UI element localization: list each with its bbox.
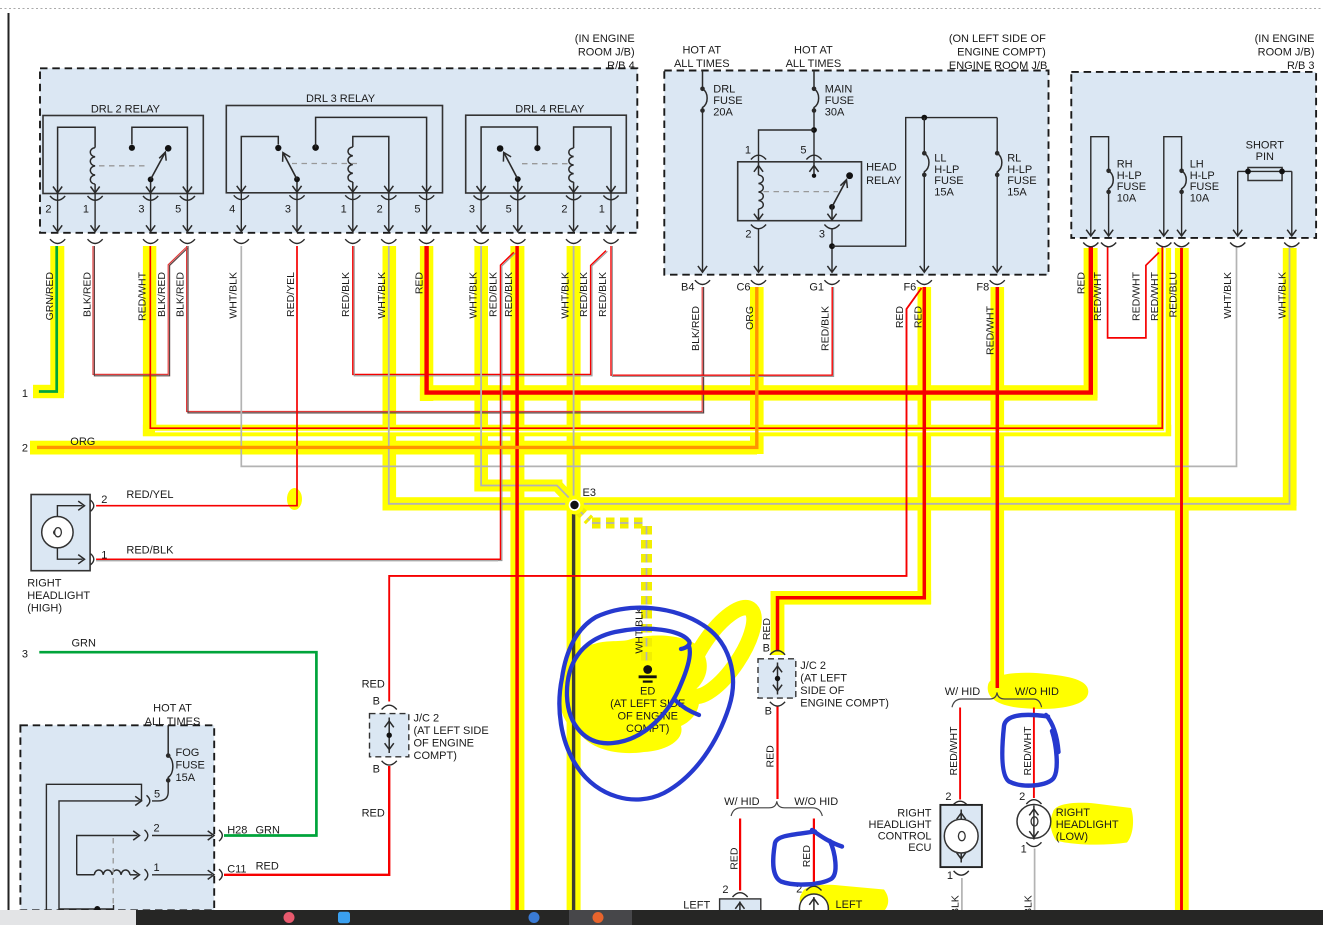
highlight RED/BLU wire bbox=[1175, 248, 1189, 910]
relay HEAD RELAY bbox=[738, 162, 902, 221]
svg-text:BLK/RED: BLK/RED bbox=[156, 272, 168, 317]
wire RED/BLK DRL4 pin5 diagonal to right headlight high pin1 bbox=[96, 252, 514, 559]
svg-text:3: 3 bbox=[285, 204, 291, 216]
svg-text:RED/BLK: RED/BLK bbox=[578, 272, 590, 317]
svg-text:1: 1 bbox=[745, 145, 751, 157]
svg-text:5: 5 bbox=[175, 204, 181, 216]
wire RED F6 thin via J/C2 left to C11 bbox=[389, 288, 921, 702]
svg-text:RIGHT: RIGHT bbox=[897, 808, 932, 820]
brace W/HID-W/O HID split at J/C2 right bbox=[731, 801, 822, 816]
fuse LH H-LP FUSE 10A bbox=[1164, 137, 1182, 237]
svg-text:R/B 3: R/B 3 bbox=[1287, 60, 1315, 72]
highlight blob RIGHT HEADLIGHT LOW text bbox=[1051, 803, 1133, 845]
highlight E3 horizontal WHT/BLK rail bbox=[383, 497, 1297, 510]
svg-text:(HIGH): (HIGH) bbox=[27, 603, 62, 615]
gray shadow on RED/BLK horizontal bbox=[96, 560, 498, 562]
taskbar icon orange bbox=[593, 912, 604, 923]
svg-text:SHORT: SHORT bbox=[1246, 140, 1285, 152]
svg-text:RED: RED bbox=[913, 306, 925, 329]
wire J/B junction to head relay pin1 bbox=[759, 130, 815, 162]
relay DRL4 bbox=[466, 104, 627, 194]
svg-text:RIGHT: RIGHT bbox=[1056, 807, 1091, 819]
highlight blob LEFT bulb bbox=[800, 885, 888, 911]
connector head relay pin2 bbox=[751, 225, 766, 229]
svg-text:FUSE: FUSE bbox=[934, 175, 963, 187]
svg-text:J/C 2: J/C 2 bbox=[414, 713, 440, 725]
node E3 bbox=[565, 496, 584, 515]
wire RED W/O HID branch to LEFT bulb bbox=[813, 819, 815, 885]
svg-text:2: 2 bbox=[101, 494, 107, 506]
svg-text:1: 1 bbox=[1021, 844, 1027, 856]
head relay pin5 contact bbox=[809, 166, 818, 172]
connectors at J/B bottom edge bbox=[695, 280, 710, 284]
R/B 4 dashed border bbox=[40, 68, 637, 233]
fuse RL H-LP FUSE 15A bbox=[996, 118, 998, 154]
svg-text:3: 3 bbox=[22, 649, 28, 661]
svg-text:2: 2 bbox=[722, 884, 728, 896]
svg-text:5: 5 bbox=[506, 204, 512, 216]
wire WHT/BLK DRL3 pin4 to R/B3 conn5 bbox=[241, 246, 1236, 466]
highlight WHT/BLK wire DRL3 pin2 bbox=[383, 246, 397, 510]
relay DRL3 pin leads bbox=[234, 193, 249, 244]
highlight WHT/BLK wire DRL4 pin3 bbox=[474, 246, 488, 491]
svg-text:E3: E3 bbox=[583, 487, 596, 499]
svg-text:WHT/BLK: WHT/BLK bbox=[228, 272, 240, 319]
page left border bbox=[8, 13, 10, 910]
svg-text:RELAY: RELAY bbox=[866, 175, 902, 187]
fog relay box fill bbox=[20, 725, 214, 910]
svg-text:GRN: GRN bbox=[72, 638, 97, 650]
wire BLK below LOW bulb bbox=[1034, 849, 1036, 911]
relay DRL4 coil bbox=[574, 127, 611, 193]
svg-text:FUSE: FUSE bbox=[1190, 181, 1219, 193]
svg-text:RL: RL bbox=[1007, 153, 1021, 165]
svg-text:MAIN: MAIN bbox=[825, 84, 853, 96]
svg-text:BLK/RED: BLK/RED bbox=[175, 272, 187, 317]
brace W/HID-W/O HID split at F8 bbox=[952, 693, 1042, 708]
svg-text:15A: 15A bbox=[176, 772, 196, 784]
highlight WHT/BLK wire DRL4 pin2 + black wire below E3 bbox=[567, 246, 581, 910]
taskbar bbox=[0, 910, 1323, 925]
svg-text:RED/WHT: RED/WHT bbox=[1131, 271, 1143, 321]
svg-text:H-LP: H-LP bbox=[1117, 170, 1142, 182]
svg-text:C6: C6 bbox=[736, 282, 750, 294]
relay DRL4 switch bbox=[481, 127, 537, 193]
connector H28 bbox=[152, 835, 212, 837]
R/B 4 junction block fill bbox=[40, 68, 637, 233]
svg-text:GRN/RED: GRN/RED bbox=[44, 272, 56, 321]
ground ED bbox=[643, 665, 652, 674]
svg-text:(LOW): (LOW) bbox=[1056, 831, 1088, 843]
engine room J/B dashed border bbox=[664, 71, 1048, 275]
svg-text:RED: RED bbox=[256, 861, 279, 873]
svg-text:RED/BLK: RED/BLK bbox=[597, 272, 609, 317]
svg-text:BLK/RED: BLK/RED bbox=[690, 306, 702, 351]
svg-text:R/B 4: R/B 4 bbox=[607, 60, 635, 72]
node G1/F-rail junction bbox=[831, 228, 833, 273]
svg-text:3: 3 bbox=[138, 204, 144, 216]
taskbar icon pink bbox=[284, 912, 295, 923]
fog fuse lead into pin 5 bbox=[152, 780, 168, 801]
svg-text:F6: F6 bbox=[903, 282, 916, 294]
svg-text:WHT/BLK: WHT/BLK bbox=[560, 272, 572, 319]
wire RED/BLK thick DRL4 pin5 straight to page bottom bbox=[515, 246, 519, 911]
svg-text:RED/WHT: RED/WHT bbox=[1022, 726, 1034, 776]
svg-text:RED/BLK: RED/BLK bbox=[820, 306, 832, 351]
fog relay coil bbox=[77, 874, 95, 876]
R/B 3 dashed border bbox=[1071, 72, 1316, 238]
svg-text:RED/BLK: RED/BLK bbox=[503, 272, 515, 317]
wire RED below J/C2 right bbox=[776, 706, 778, 799]
svg-text:RED: RED bbox=[414, 272, 426, 295]
highlight RED/WHT wire DRL2 pin3 bbox=[143, 246, 156, 436]
highlight ORG wire bbox=[750, 287, 764, 454]
svg-text:SIDE OF: SIDE OF bbox=[800, 685, 844, 697]
highlight F6 thick RED wire bbox=[918, 287, 932, 604]
node MAIN fuse junction bbox=[813, 111, 815, 162]
svg-text:HEADLIGHT: HEADLIGHT bbox=[869, 819, 932, 831]
fuse RH H-LP FUSE 10A bbox=[1091, 137, 1109, 237]
taskbar icon blue 2 bbox=[529, 912, 540, 923]
highlight R/B3 WHT/BLK conn6 wire bbox=[1283, 248, 1297, 506]
svg-text:1: 1 bbox=[154, 862, 160, 874]
svg-text:1: 1 bbox=[341, 204, 347, 216]
svg-text:B: B bbox=[373, 764, 380, 776]
svg-text:FUSE: FUSE bbox=[825, 95, 854, 107]
svg-text:B: B bbox=[763, 643, 770, 655]
relay DRL3 switch bbox=[241, 137, 278, 193]
svg-text:RED: RED bbox=[761, 618, 773, 641]
svg-text:DRL 4 RELAY: DRL 4 RELAY bbox=[515, 104, 585, 116]
svg-text:LL: LL bbox=[934, 153, 946, 165]
svg-text:H28: H28 bbox=[227, 825, 247, 837]
svg-text:HEADLIGHT: HEADLIGHT bbox=[1056, 819, 1119, 831]
svg-text:OF ENGINE: OF ENGINE bbox=[617, 711, 678, 723]
svg-text:DRL: DRL bbox=[713, 84, 735, 96]
svg-text:30A: 30A bbox=[825, 107, 845, 119]
svg-text:15A: 15A bbox=[1007, 186, 1027, 198]
svg-text:HOT AT: HOT AT bbox=[794, 45, 833, 57]
blue scribble around RED W/O HID label bbox=[773, 832, 835, 885]
wire BLK below ECU bbox=[961, 878, 963, 910]
svg-text:ORG: ORG bbox=[744, 306, 756, 330]
wire RED/BLU R/B3 conn4 to page bottom bbox=[1180, 248, 1183, 911]
svg-text:WHT/BLK: WHT/BLK bbox=[468, 272, 480, 319]
svg-text:2: 2 bbox=[45, 204, 51, 216]
svg-text:RED/BLK: RED/BLK bbox=[340, 272, 352, 317]
svg-text:H-LP: H-LP bbox=[934, 164, 959, 176]
svg-text:1: 1 bbox=[83, 204, 89, 216]
svg-text:ORG: ORG bbox=[70, 436, 95, 448]
svg-text:20A: 20A bbox=[713, 107, 733, 119]
svg-text:FOG: FOG bbox=[176, 747, 200, 759]
svg-text:2: 2 bbox=[561, 204, 567, 216]
svg-text:RH: RH bbox=[1117, 159, 1133, 171]
svg-text:FUSE: FUSE bbox=[713, 95, 742, 107]
highlight R/B3 RED/WHT conn3 wire bbox=[1157, 248, 1171, 430]
svg-text:2: 2 bbox=[22, 443, 28, 455]
svg-text:1: 1 bbox=[947, 870, 953, 882]
fuse DRL FUSE 20A bbox=[702, 71, 704, 89]
svg-text:RED: RED bbox=[362, 679, 385, 691]
svg-text:10A: 10A bbox=[1190, 192, 1210, 204]
highlight R/B3 RED wire bbox=[1084, 248, 1098, 398]
svg-text:FUSE: FUSE bbox=[1007, 175, 1036, 187]
svg-text:LH: LH bbox=[1190, 159, 1204, 171]
junction J/C 2 left bbox=[370, 705, 409, 765]
svg-text:RED: RED bbox=[801, 845, 813, 868]
R/B 3 fill bbox=[1071, 72, 1316, 238]
wire RED/YEL DRL3 pin3 to right headlight high pin2 bbox=[96, 246, 297, 506]
page top dotted border bbox=[0, 8, 1323, 10]
svg-text:(IN ENGINE: (IN ENGINE bbox=[1255, 33, 1315, 45]
svg-text:BLK/RED: BLK/RED bbox=[82, 272, 94, 317]
component RIGHT HEADLIGHT CONTROL ECU bbox=[940, 805, 982, 867]
wire RED thick DRL3 pin5 to R/B3 conn1 bbox=[427, 246, 1091, 393]
svg-text:HOT AT: HOT AT bbox=[682, 45, 721, 57]
svg-text:RIGHT: RIGHT bbox=[27, 578, 62, 590]
svg-text:LEFT: LEFT bbox=[683, 899, 710, 911]
lead B4 inside J/B bbox=[702, 111, 704, 273]
highlight RED/BLK long wire DRL4 pin5 bbox=[510, 246, 524, 910]
connector head relay pin5 bbox=[806, 155, 821, 159]
svg-text:LEFT: LEFT bbox=[836, 899, 863, 911]
wire RED/BLK DRL3 pin1 to DRL4 pin1 diagonal bbox=[353, 246, 606, 374]
fog relay switch remnant bbox=[59, 908, 114, 910]
wire WHT/BLK DRL4 pin3 to E3 bbox=[481, 246, 573, 503]
svg-text:OF ENGINE: OF ENGINE bbox=[414, 738, 475, 750]
svg-text:ROOM J/B): ROOM J/B) bbox=[578, 47, 635, 59]
junction J/C 2 right bbox=[758, 651, 796, 707]
blue scribble hook inside bbox=[675, 700, 699, 715]
svg-text:HEADLIGHT: HEADLIGHT bbox=[27, 590, 90, 602]
svg-text:DRL 3 RELAY: DRL 3 RELAY bbox=[306, 93, 376, 105]
svg-text:HOT AT: HOT AT bbox=[153, 703, 192, 715]
wire BLK ground lead below E3 bbox=[572, 508, 575, 911]
svg-text:(ON LEFT SIDE OF: (ON LEFT SIDE OF bbox=[949, 33, 1046, 45]
svg-text:WHT/BLK: WHT/BLK bbox=[376, 272, 388, 319]
svg-text:RED/WHT: RED/WHT bbox=[985, 305, 997, 355]
component LEFT bulb bbox=[799, 894, 828, 923]
svg-text:3: 3 bbox=[469, 204, 475, 216]
connector head relay pin3 bbox=[824, 225, 839, 229]
highlight RED/WHT horizontal rail bbox=[143, 425, 1171, 437]
svg-text:RED/WHT: RED/WHT bbox=[948, 726, 960, 776]
wire GRN H28 to left margin stub 3 bbox=[39, 652, 316, 835]
svg-text:DRL 2 RELAY: DRL 2 RELAY bbox=[91, 104, 161, 116]
svg-text:W/ HID: W/ HID bbox=[945, 686, 980, 698]
connectors at R/B3 bottom edge bbox=[1083, 243, 1098, 247]
relay DRL2 pin leads bbox=[50, 194, 65, 244]
wire head relay pin3 to H-LP fuses bbox=[832, 118, 997, 247]
svg-text:(IN ENGINE: (IN ENGINE bbox=[575, 33, 635, 45]
wire RED/BLK DRL4 pin1 straight to G1 bbox=[611, 246, 832, 375]
svg-text:2: 2 bbox=[945, 791, 951, 803]
svg-text:RED: RED bbox=[729, 847, 741, 870]
head relay coil bbox=[754, 166, 763, 172]
highlight blob around ED ground bbox=[676, 598, 766, 705]
svg-text:HEAD: HEAD bbox=[866, 162, 897, 174]
wire WHT/BLK dashed ED ground lead (yellow dashes) bbox=[578, 509, 590, 521]
svg-text:RED/BLK: RED/BLK bbox=[126, 545, 174, 557]
svg-text:WHT/BLK: WHT/BLK bbox=[1276, 272, 1288, 319]
highlight patch at RED/YEL corner bbox=[287, 488, 302, 510]
blue scribble around ED ground (outer loop) bbox=[559, 608, 733, 800]
lead C6 inside J/B bbox=[758, 228, 760, 273]
svg-text:J/C 2: J/C 2 bbox=[800, 660, 826, 672]
svg-text:B: B bbox=[373, 696, 380, 708]
relay DRL3 coil bbox=[353, 137, 389, 193]
svg-text:H-LP: H-LP bbox=[1007, 164, 1032, 176]
svg-text:ALL TIMES: ALL TIMES bbox=[145, 716, 201, 728]
relay DRL2 bbox=[43, 104, 203, 194]
engine room J/B fill bbox=[664, 71, 1048, 275]
fog relay dashed border bbox=[20, 725, 214, 910]
svg-text:RED: RED bbox=[894, 306, 906, 329]
svg-text:3: 3 bbox=[819, 229, 825, 241]
fog relay pin2 line bbox=[77, 836, 138, 875]
svg-text:ALL TIMES: ALL TIMES bbox=[674, 58, 730, 70]
svg-text:RED: RED bbox=[765, 745, 777, 768]
svg-text:5: 5 bbox=[800, 145, 806, 157]
svg-text:B4: B4 bbox=[681, 282, 694, 294]
wire RED/WHT W/ HID branch to ECU pin2 bbox=[959, 708, 961, 800]
svg-text:FUSE: FUSE bbox=[176, 760, 205, 772]
head relay switch bbox=[846, 172, 853, 179]
svg-text:2: 2 bbox=[377, 204, 383, 216]
svg-text:ALL TIMES: ALL TIMES bbox=[786, 58, 842, 70]
svg-text:RED/WHT: RED/WHT bbox=[1092, 271, 1104, 321]
svg-text:ENGINE COMPT): ENGINE COMPT) bbox=[957, 47, 1046, 59]
svg-text:RED/YEL: RED/YEL bbox=[285, 272, 297, 317]
svg-text:(AT LEFT SIDE: (AT LEFT SIDE bbox=[414, 725, 489, 737]
svg-text:15A: 15A bbox=[934, 186, 954, 198]
wire RED/WHT W/O HID branch to LOW bulb pin2 bbox=[1033, 708, 1035, 799]
taskbar icon blue 1 bbox=[338, 912, 350, 923]
svg-text:W/O HID: W/O HID bbox=[1015, 686, 1059, 698]
fuse LL H-LP FUSE 15A bbox=[923, 118, 925, 154]
connector LOW bulb pin1 bbox=[1026, 842, 1041, 846]
svg-text:B: B bbox=[765, 706, 772, 718]
svg-text:1: 1 bbox=[101, 550, 107, 562]
wire GRN/RED DRL2 pin2 bbox=[39, 246, 57, 392]
svg-text:FUSE: FUSE bbox=[1117, 181, 1146, 193]
connector C11 bbox=[152, 874, 212, 876]
highlight thick RED rail bbox=[420, 385, 1098, 400]
svg-text:RED/YEL: RED/YEL bbox=[126, 489, 173, 501]
wire RED/WHT DRL2 pin3 to R/B3 (white component) bbox=[155, 246, 1165, 432]
component RIGHT HEADLIGHT (HIGH) bbox=[31, 495, 94, 571]
connector ECU pin1 bbox=[954, 871, 969, 875]
svg-text:1: 1 bbox=[22, 388, 28, 400]
svg-text:ROOM J/B): ROOM J/B) bbox=[1258, 47, 1315, 59]
svg-text:COMPT): COMPT) bbox=[414, 750, 457, 762]
fuse MAIN FUSE 30A bbox=[813, 71, 815, 89]
svg-text:CONTROL: CONTROL bbox=[878, 831, 932, 843]
svg-text:RED: RED bbox=[1075, 272, 1087, 295]
svg-text:H-LP: H-LP bbox=[1190, 170, 1215, 182]
highlight RED wire DRL3 pin5 bbox=[420, 246, 433, 401]
svg-text:2: 2 bbox=[745, 229, 751, 241]
highlight WHT/BLK short rail DRL4 pin3 bbox=[474, 480, 562, 492]
svg-text:(AT LEFT: (AT LEFT bbox=[800, 673, 847, 685]
blue scribble around RED/WHT W/O HID label bbox=[1002, 715, 1056, 786]
taskbar active block bbox=[569, 910, 632, 925]
wire WHT/BLK DRL4 pin2 down to E3 bbox=[573, 246, 575, 502]
svg-text:PIN: PIN bbox=[1256, 151, 1274, 163]
svg-text:5: 5 bbox=[154, 789, 160, 801]
wire BLK/RED DRL2 pin1 to pin5 diagonal bbox=[93, 246, 186, 374]
wire ORG C6 to left margin bbox=[37, 287, 757, 447]
connector head relay pin1 bbox=[751, 155, 766, 159]
connector fog pin1 bbox=[145, 869, 148, 880]
wire BLK/RED DRL2 pin5 to B4 bbox=[187, 246, 703, 412]
svg-text:C11: C11 bbox=[227, 864, 246, 876]
component LEFT connector box bbox=[720, 899, 761, 912]
wire RED/WHT DRL2 pin3 to R/B3 (red component) bbox=[150, 246, 1162, 428]
highlight F8 RED/WHT wire bbox=[991, 287, 1005, 683]
relay DRL2 switch bbox=[132, 127, 188, 193]
svg-text:ENGINE ROOM J/B: ENGINE ROOM J/B bbox=[949, 60, 1047, 72]
highlight GRN/RED wire bbox=[50, 246, 64, 393]
wire RED/WHT F8 bbox=[996, 287, 1000, 688]
svg-text:4: 4 bbox=[229, 204, 235, 216]
wire RED W/ HID branch to LEFT connector box bbox=[739, 819, 741, 891]
svg-text:WHT/BLK: WHT/BLK bbox=[1222, 272, 1234, 319]
svg-text:G1: G1 bbox=[809, 282, 824, 294]
svg-text:ECU: ECU bbox=[908, 842, 931, 854]
svg-text:W/ HID: W/ HID bbox=[724, 796, 759, 808]
fuse FOG FUSE 15A bbox=[167, 725, 169, 755]
component RIGHT HEADLIGHT LOW bulb bbox=[1017, 805, 1051, 840]
connector fog pin5 bbox=[147, 795, 150, 806]
svg-text:5: 5 bbox=[414, 204, 420, 216]
blue scribble around ED ground (inner loop) bbox=[567, 629, 690, 744]
svg-text:RED/WHT: RED/WHT bbox=[136, 271, 148, 321]
wire RED/WHT R/B3 conn2 loop to conn3 bbox=[1108, 246, 1159, 338]
svg-text:RED: RED bbox=[362, 808, 385, 820]
svg-text:ED: ED bbox=[640, 686, 655, 698]
svg-text:ENGINE COMPT): ENGINE COMPT) bbox=[800, 698, 889, 710]
svg-text:2: 2 bbox=[154, 823, 160, 835]
relay DRL3 bbox=[226, 93, 442, 193]
wire RED F6 thick to J/C2 right bbox=[778, 287, 925, 652]
svg-text:10A: 10A bbox=[1117, 192, 1137, 204]
svg-text:RED/BLU: RED/BLU bbox=[1167, 272, 1179, 318]
svg-text:RED/BLK: RED/BLK bbox=[488, 272, 500, 317]
svg-text:W/O HID: W/O HID bbox=[794, 796, 838, 808]
wire WHT/BLK DRL3 pin2 through E3 to R/B3 conn6 bbox=[389, 246, 1290, 504]
svg-text:RED/WHT: RED/WHT bbox=[1149, 271, 1161, 321]
svg-text:GRN: GRN bbox=[256, 825, 281, 837]
svg-text:1: 1 bbox=[599, 204, 605, 216]
fog relay mechanical link bbox=[112, 838, 114, 906]
svg-text:F8: F8 bbox=[976, 282, 989, 294]
fog relay contact feed bbox=[46, 784, 141, 910]
svg-text:2: 2 bbox=[1019, 791, 1025, 803]
highlight blob W/O HID at F8 end bbox=[988, 673, 1089, 709]
relay DRL4 pin leads bbox=[474, 193, 489, 244]
